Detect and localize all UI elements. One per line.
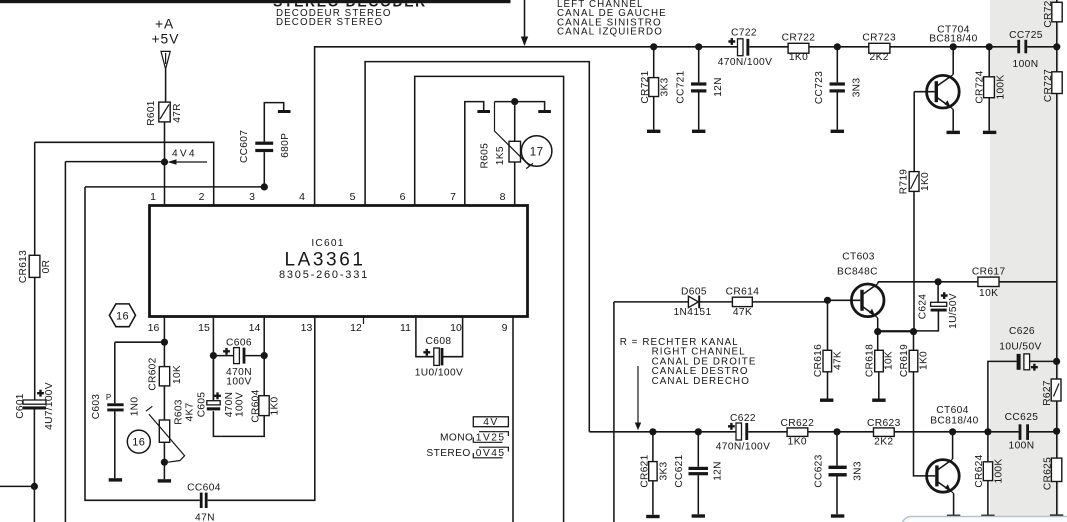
junction CT604 collector node	[949, 428, 956, 435]
svg-text:0R: 0R	[41, 260, 52, 274]
ground R605 right stub	[538, 110, 551, 113]
capacitor CC723 3N3	[836, 47, 838, 130]
capacitor C603 1N0	[114, 342, 116, 478]
resistor CR616 47K	[827, 300, 829, 398]
junction CR721 top node	[650, 43, 657, 50]
resistor CR621 3K3	[652, 432, 654, 515]
junction CC621 top node	[695, 428, 702, 435]
resistor CR727	[1052, 72, 1062, 94]
junction C601 bottom node	[31, 483, 38, 490]
trimmer R605 1K5	[509, 141, 521, 162]
svg-text:4V: 4V	[483, 417, 498, 428]
1V25 measure value	[473, 432, 508, 443]
svg-text:3: 3	[249, 191, 255, 203]
svg-text:R719: R719	[899, 169, 910, 195]
wire D605 row	[614, 301, 828, 303]
svg-text:680P: 680P	[280, 133, 291, 158]
svg-text:2: 2	[199, 191, 205, 203]
resistor CR618 10K	[878, 332, 879, 399]
ground CC621	[692, 514, 705, 517]
svg-text:MONO: MONO	[440, 432, 473, 443]
ground CR621	[646, 515, 659, 518]
junction rail C626 node	[1053, 358, 1060, 365]
capacitor C606 470N 100V	[213, 355, 264, 357]
svg-text:12N: 12N	[713, 461, 724, 481]
svg-text:1U0/100V: 1U0/100V	[415, 368, 464, 379]
wire collector row CT603 to CR617 and rail	[878, 281, 1057, 283]
diode D605 1N4151	[688, 296, 698, 307]
wire left rail x34.7 down with CR613 C601	[33, 142, 35, 522]
wire y142 from CR613 line to pin2	[35, 142, 214, 205]
svg-text:47K: 47K	[832, 351, 843, 370]
ground CT704 emitter	[947, 131, 960, 134]
svg-text:17: 17	[530, 147, 544, 159]
svg-text:C605: C605	[196, 392, 207, 418]
wire pin6 loop up over and down to bottom edge	[415, 76, 564, 522]
wire pin4 up and top channel rail	[315, 47, 1057, 206]
svg-text:47K: 47K	[733, 307, 752, 318]
wire pin15 down	[212, 317, 214, 401]
resistor R601 47R	[159, 102, 170, 122]
capacitor CC607 680P	[264, 103, 283, 187]
svg-text:C606: C606	[226, 338, 252, 349]
svg-text:CR622: CR622	[780, 418, 814, 429]
svg-text:8: 8	[500, 191, 506, 203]
svg-text:BC818/40: BC818/40	[930, 415, 979, 426]
junction pin16 node	[161, 339, 168, 346]
resistor R627	[1051, 379, 1061, 401]
left channel input arrow	[524, 0, 526, 37]
IC601 box	[150, 206, 528, 317]
svg-text:10K: 10K	[884, 351, 895, 370]
resistor CR723 2K2	[869, 43, 890, 53]
4V measure box	[473, 417, 508, 427]
ground CC721	[692, 130, 705, 133]
svg-text:CANAL IZQUIERDO: CANAL IZQUIERDO	[557, 27, 663, 38]
capacitor C605 470N 100V	[213, 356, 220, 437]
junction pin14 node	[261, 352, 268, 359]
resistor CR625	[1051, 458, 1061, 481]
resistor CR726 top edge	[1052, 2, 1062, 22]
svg-text:12N: 12N	[713, 77, 724, 97]
resistor CR624 100K	[987, 432, 989, 515]
wire y187 big loop top to pin3 node	[85, 186, 264, 188]
capacitor C722 470N/100V	[738, 39, 744, 56]
svg-text:C626: C626	[1009, 326, 1035, 337]
svg-text:C722: C722	[731, 28, 757, 39]
capacitor CC621 12N	[697, 432, 699, 515]
svg-text:IC601: IC601	[311, 238, 344, 249]
svg-text:6: 6	[400, 191, 406, 203]
wire CT704 base down to R719	[913, 92, 915, 172]
svg-text:CR613: CR613	[18, 250, 29, 283]
junction CR624 top node	[984, 428, 991, 435]
R signal arrow	[637, 366, 639, 423]
svg-text:47N: 47N	[195, 512, 215, 522]
resistor CR623 2K2	[874, 428, 895, 437]
svg-text:CR726: CR726	[1043, 0, 1054, 28]
wire pin5 loop up over and down right side	[365, 62, 589, 432]
svg-text:100V: 100V	[226, 376, 251, 387]
svg-text:10U/50V: 10U/50V	[999, 342, 1041, 353]
gray scan band right side	[990, 0, 1059, 516]
wire pin11 pin10 C608 bracket	[416, 317, 463, 357]
svg-text:CR616: CR616	[813, 344, 824, 377]
svg-text:CC607: CC607	[239, 130, 250, 163]
svg-text:10K: 10K	[172, 365, 183, 384]
svg-text:100N: 100N	[1009, 441, 1035, 452]
svg-text:0V45: 0V45	[476, 448, 506, 459]
svg-text:16: 16	[116, 310, 129, 322]
svg-text:13: 13	[301, 322, 313, 334]
clipped big heading STEREO DECODER (bottom sliver)	[273, 0, 427, 10]
svg-text:4V4: 4V4	[172, 149, 197, 160]
svg-text:C624: C624	[918, 294, 929, 320]
junction CT603 emitter node	[874, 328, 881, 335]
junction CT704 collector node	[950, 43, 957, 50]
svg-text:CR724: CR724	[975, 70, 986, 103]
svg-text:1K5: 1K5	[495, 146, 506, 165]
svg-text:CC625: CC625	[1005, 412, 1039, 423]
wire pin14 down through CR604	[220, 317, 264, 436]
ground CC623	[831, 514, 844, 517]
svg-text:4K7: 4K7	[185, 402, 196, 421]
junction pin3 node	[261, 183, 268, 190]
junction C624 top node	[935, 278, 942, 285]
svg-text:CC725: CC725	[1009, 30, 1043, 41]
wire pin16 node to C603 column	[115, 341, 165, 343]
svg-text:16: 16	[148, 322, 160, 334]
svg-text:15: 15	[198, 322, 210, 334]
wire pin16 down through CR602	[163, 317, 165, 479]
svg-text:1N0: 1N0	[130, 397, 141, 417]
ground CR624	[981, 515, 994, 518]
svg-text:2K2: 2K2	[870, 52, 889, 63]
resistor CR613 0R	[29, 255, 40, 277]
svg-text:1N4151: 1N4151	[673, 307, 711, 318]
capacitor C608 1U0/100V	[434, 348, 440, 365]
wire pin1 vertical from arrow to IC	[165, 69, 166, 205]
wire pin7 up to ground stub	[465, 102, 484, 206]
capacitor C626 10U/50V	[988, 361, 1057, 431]
svg-text:10K: 10K	[979, 288, 998, 299]
svg-text:CR619: CR619	[899, 344, 910, 377]
supply arrow symbol	[161, 51, 170, 69]
svg-text:C622: C622	[730, 413, 756, 424]
svg-text:100V: 100V	[235, 392, 246, 417]
svg-text:1V25: 1V25	[476, 432, 506, 443]
svg-text:9: 9	[502, 322, 508, 334]
svg-text:CC623: CC623	[814, 454, 825, 487]
capacitor CC721 12N	[698, 47, 700, 130]
svg-text:CC721: CC721	[676, 70, 687, 103]
junction rail CC625 node	[1053, 428, 1060, 435]
svg-text:100K: 100K	[994, 459, 1005, 484]
svg-text:R627: R627	[1042, 380, 1053, 406]
ground R603	[158, 479, 171, 482]
wire CT603 emitter row	[878, 331, 914, 333]
svg-text:1K0: 1K0	[270, 396, 281, 415]
capacitor C601 4U7/100V	[23, 400, 46, 404]
junction R603 bottom node	[161, 459, 168, 466]
wire stub to left edge	[0, 485, 34, 487]
resistor CR604 1K0	[259, 396, 269, 416]
svg-text:LA3361: LA3361	[284, 250, 365, 271]
svg-text:CR624: CR624	[974, 454, 985, 487]
ground CR618	[872, 399, 885, 402]
capacitor C624 1U/50V	[878, 282, 939, 331]
circle ref 16	[127, 430, 150, 453]
junction CR621 top node	[649, 428, 656, 435]
ground CC607 stub	[278, 110, 291, 113]
svg-text:CR604: CR604	[251, 389, 262, 422]
right rail vertical	[1056, 0, 1058, 514]
svg-text:7: 7	[450, 191, 456, 203]
svg-text:10: 10	[450, 322, 462, 334]
svg-text:C601: C601	[15, 393, 26, 419]
resistor CR722 1K0	[788, 43, 809, 53]
wire pin9 down to bottom edge	[512, 317, 514, 522]
pin 12 nc stub	[363, 317, 365, 324]
capacitor CC623 3N3	[836, 432, 838, 515]
svg-text:4: 4	[299, 191, 305, 203]
ground CR721	[647, 130, 660, 133]
circle ref 17	[521, 136, 552, 167]
svg-text:1K0: 1K0	[918, 351, 929, 370]
svg-text:CC723: CC723	[814, 71, 825, 104]
svg-text:CC604: CC604	[187, 482, 221, 493]
svg-text:470N: 470N	[224, 392, 235, 418]
svg-text:CR625: CR625	[1042, 457, 1053, 490]
svg-text:5: 5	[350, 191, 356, 203]
junction R605 top node	[511, 98, 518, 105]
svg-text:CR602: CR602	[148, 357, 159, 390]
wire R719 down to emitter row	[913, 191, 915, 331]
svg-text:4U7/100V: 4U7/100V	[44, 382, 55, 430]
svg-text:C608: C608	[426, 336, 452, 347]
hexagon ref 16	[109, 304, 135, 327]
junction CC623 top node	[833, 428, 840, 435]
svg-text:14: 14	[249, 322, 261, 334]
junction pin15 node	[210, 352, 217, 359]
svg-text:8305-260-331: 8305-260-331	[279, 269, 369, 281]
capacitor CC604 47N	[200, 493, 203, 508]
junction CC721 top node	[695, 43, 702, 50]
wire left rail x65 down to bottom edge	[64, 162, 66, 522]
capacitor CC625 100N	[1019, 424, 1022, 440]
wire D605 row corner down to bottom edge	[613, 302, 615, 522]
svg-text:R605: R605	[480, 143, 491, 169]
svg-text:STEREO: STEREO	[426, 448, 470, 459]
ground C603	[109, 478, 122, 481]
svg-text:CT603: CT603	[842, 252, 875, 263]
bottom right overlay panel	[902, 517, 1067, 522]
svg-text:+5V: +5V	[152, 32, 180, 47]
svg-text:12: 12	[350, 322, 362, 334]
svg-text:47R: 47R	[172, 103, 183, 123]
svg-text:470N/100V: 470N/100V	[716, 442, 771, 453]
junction R719 bottom node	[910, 328, 917, 335]
trimmer R603 4K7	[159, 420, 169, 442]
svg-text:16: 16	[132, 437, 145, 449]
junction CT603 base node	[824, 297, 831, 304]
svg-text:P: P	[106, 393, 111, 402]
top black header bar	[0, 0, 511, 3]
ground CC723	[831, 130, 844, 133]
svg-text:CR621: CR621	[640, 454, 651, 487]
resistor CR602 10K	[159, 367, 169, 386]
resistor CR617 10K	[978, 277, 999, 286]
resistor CR721 3K3	[653, 47, 655, 130]
junction CR724 top node	[986, 43, 993, 50]
svg-text:100N: 100N	[1013, 59, 1039, 70]
wire big loop left x85 down and bottom to pin13	[85, 187, 315, 500]
svg-text:1U/50V: 1U/50V	[948, 293, 959, 329]
svg-text:1: 1	[150, 191, 156, 203]
svg-text:CR727: CR727	[1043, 69, 1054, 102]
svg-text:CR721: CR721	[640, 70, 651, 103]
svg-text:3K3: 3K3	[658, 461, 669, 480]
svg-text:CR723: CR723	[862, 32, 896, 43]
ground pin7 stub	[477, 110, 490, 113]
wire R channel bottom rail	[589, 431, 1056, 433]
svg-text:2K2: 2K2	[874, 436, 893, 447]
svg-text:+A: +A	[155, 17, 174, 32]
svg-text:DECODER STEREO: DECODER STEREO	[276, 17, 383, 28]
svg-text:1K0: 1K0	[920, 172, 931, 191]
svg-text:CC621: CC621	[674, 454, 685, 487]
svg-text:R601: R601	[146, 100, 157, 126]
svg-text:CANAL DERECHO: CANAL DERECHO	[652, 376, 750, 387]
wire pin8 R605 top bar	[495, 102, 545, 206]
svg-text:BC848C: BC848C	[837, 267, 878, 278]
junction CC723 top node	[834, 43, 841, 50]
svg-text:D605: D605	[681, 287, 707, 298]
svg-text:BC818/40: BC818/40	[929, 33, 978, 44]
svg-text:CR623: CR623	[867, 418, 901, 429]
svg-text:CR618: CR618	[865, 344, 876, 377]
wire y162 from left rail to pin1 node	[65, 161, 164, 163]
svg-text:CR617: CR617	[972, 267, 1006, 278]
0V45 measure value	[473, 447, 508, 458]
svg-text:CR614: CR614	[726, 287, 760, 298]
resistor CR614 47K	[732, 297, 752, 306]
svg-text:3K3: 3K3	[660, 77, 671, 96]
svg-text:R603: R603	[174, 399, 185, 425]
resistor CR622 1K0	[787, 428, 808, 437]
junction right rail top node	[1053, 43, 1060, 50]
ground CR625	[1050, 514, 1063, 517]
svg-text:100K: 100K	[996, 75, 1007, 100]
resistor CR724 100K	[988, 47, 990, 131]
svg-text:11: 11	[400, 322, 411, 334]
ground CR616	[820, 399, 833, 402]
svg-text:3N3: 3N3	[852, 78, 863, 98]
svg-text:C603: C603	[91, 394, 102, 420]
ground CR724	[983, 131, 996, 134]
svg-text:3N3: 3N3	[853, 461, 864, 481]
capacitor C622 470N/100V	[736, 423, 742, 440]
svg-text:CR722: CR722	[782, 32, 816, 43]
ground CT604 emitter	[947, 515, 960, 518]
capacitor CC725 100N	[1017, 40, 1020, 54]
svg-text:470N/100V: 470N/100V	[718, 57, 773, 68]
svg-text:1K0: 1K0	[788, 436, 807, 447]
svg-text:1K0: 1K0	[789, 52, 808, 63]
resistor R719 1K0	[909, 172, 919, 192]
junction pin1 node	[161, 158, 168, 165]
resistor CR619 1K0	[914, 332, 936, 476]
